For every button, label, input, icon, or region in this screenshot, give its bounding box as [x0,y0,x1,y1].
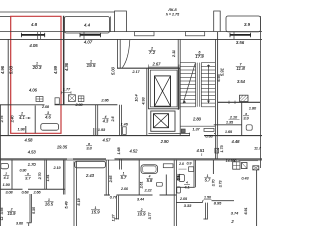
stairwell window box 1 [135,32,155,36]
tub small right [177,187,181,193]
svg-text:4.48: 4.48 [232,139,241,144]
bath bottom wall right [176,186,194,188]
pylon 1 outer wall [115,11,127,32]
hatch box corridor right [215,148,219,153]
svg-text:2.10: 2.10 [229,116,238,120]
svg-text:1.65: 1.65 [225,130,233,134]
parapet stub left of red loggia [0,15,11,17]
hall-bath divider stub [119,159,121,170]
svg-text:1.77: 1.77 [63,87,71,91]
stairwell left wall [177,39,179,110]
stair arrow right flight [208,65,210,104]
svg-text:2.90: 2.90 [160,139,170,144]
svg-text:5.19: 5.19 [77,197,81,205]
fridge box X [253,166,259,170]
stove grid symbol [36,97,43,102]
svg-text:4.8: 4.8 [31,22,38,27]
svg-text:4.4: 4.4 [84,23,91,28]
svg-text:4.58: 4.58 [25,138,34,143]
svg-text:6.91: 6.91 [244,207,248,214]
svg-text:2.86: 2.86 [100,99,109,103]
svg-text:0.9: 0.9 [187,162,192,166]
svg-text:4.3: 4.3 [103,119,109,124]
stair landing lower edge [180,125,215,127]
red apt interior wall [11,104,45,106]
svg-text:2.40: 2.40 [10,116,14,124]
wall under bath block left [0,188,23,190]
bathtub red apt [41,124,59,131]
svg-text:5.8: 5.8 [147,178,153,183]
svg-text:3.70: 3.70 [212,180,216,187]
svg-text:5.7: 5.7 [121,175,127,180]
svg-text:2.65: 2.65 [109,176,113,184]
svg-text:16.5: 16.5 [45,202,54,207]
corridor upper wall [0,135,190,137]
svg-text:4.07: 4.07 [84,39,93,44]
svg-text:3.9: 3.9 [243,117,249,121]
svg-text:3.8: 3.8 [86,147,92,151]
vent shaft hatched box [240,95,249,101]
svg-text:4.36: 4.36 [64,62,69,71]
door arrow red apt [26,117,31,119]
svg-text:0.90: 0.90 [20,168,27,172]
wall rooms 16.5/15.9 [73,161,75,226]
svg-text:10.9: 10.9 [138,212,147,217]
wc box 5.8 [157,182,163,186]
wall x213 [212,160,214,174]
svg-text:5.00: 5.00 [111,66,116,75]
wc toilet bottom right [179,175,185,182]
svg-text:5.49: 5.49 [64,200,68,208]
svg-text:0.68: 0.68 [22,190,29,194]
svg-text:1.70: 1.70 [28,162,37,167]
svg-text:3: 3 [245,112,247,116]
bath divider 5.7/5.8 [138,160,140,195]
svg-text:20.3: 20.3 [32,65,42,70]
svg-text:19.35: 19.35 [57,144,68,149]
stairwell right wall [214,39,216,135]
shelf 5.8 [163,164,173,168]
svg-text:4.57: 4.57 [103,138,112,143]
svg-text:3.7: 3.7 [25,177,31,181]
svg-text:1.98: 1.98 [17,128,24,132]
svg-text:1.46: 1.46 [121,122,129,126]
loggia 2 right edge [109,16,111,31]
svg-text:3.56: 3.56 [0,208,4,215]
svg-text:2.66: 2.66 [32,190,41,194]
wall vertical wc [241,102,243,135]
corridor lower wall [0,158,67,160]
elevator 1 car with X [155,76,171,106]
loggia 2 rounded box [65,17,110,34]
svg-text:8: 8 [88,142,90,146]
door arc room 7.2 [122,40,130,68]
svg-text:2.00: 2.00 [120,187,128,191]
wall below room 7.2 and elevator hall [117,67,180,69]
wall apt2 inner vertical [95,105,97,136]
outer wall band upper line [0,31,262,33]
svg-text:2.08: 2.08 [41,105,49,109]
svg-text:4.99: 4.99 [53,65,58,74]
wall right of room 19.5 [116,39,118,68]
red highlighted apartment outline [11,16,61,133]
loggia 3 rounded box [226,16,260,32]
svg-text:2.0: 2.0 [178,162,184,166]
svg-text:2.22: 2.22 [143,189,151,193]
svg-text:h = 2.75: h = 2.75 [166,12,180,16]
bath 5.7 left wall [105,160,107,196]
elevator shaft 1 outer [148,68,179,109]
svg-text:7.2: 7.2 [149,50,156,55]
wall between red apt and loggia2 [63,16,65,32]
svg-text:3.73: 3.73 [218,181,222,188]
corridor lower wall second line [0,159,262,161]
wall rooms 15.9/10.9 [116,196,118,220]
svg-text:17.9: 17.9 [195,54,204,59]
partition wall 5.8 [165,175,167,196]
svg-text:4.6: 4.6 [45,115,51,120]
svg-text:15.9: 15.9 [91,210,100,215]
door leaf on wall [55,98,59,104]
svg-text:3.33: 3.33 [184,204,192,208]
elevator shaft 2 outer [151,111,175,131]
svg-text:4.1: 4.1 [4,176,9,180]
svg-text:2.6: 2.6 [111,116,115,123]
outer wall band lower line [0,38,262,40]
wall elevator hall left [146,68,148,135]
wall below 8.95 [204,203,206,220]
svg-text:2.11: 2.11 [172,50,176,58]
svg-text:3.56: 3.56 [236,40,245,45]
elevator 2 car with X [154,114,169,128]
window W1 of red apartment [21,34,44,36]
kitchen stove box [233,162,240,169]
svg-text:3: 3 [27,172,29,176]
wc toilet symbol [246,125,252,130]
corridor upper wall second line [148,133,190,135]
svg-text:2.67: 2.67 [152,61,162,66]
wall bottom of big rooms [0,104,11,106]
stair door to corridor [204,128,214,131]
svg-text:1.90: 1.90 [3,183,10,187]
svg-text:2.61: 2.61 [177,174,181,182]
svg-text:4.06: 4.06 [29,87,38,92]
svg-text:2.70: 2.70 [38,173,42,181]
svg-text:1.81: 1.81 [46,175,50,182]
stair stringers [195,63,197,107]
lower left bath wall v1 [11,160,13,190]
outer left wall [7,39,9,135]
svg-text:4.52: 4.52 [130,149,139,154]
svg-text:3.44: 3.44 [137,198,144,202]
svg-text:2.05: 2.05 [179,197,188,201]
tiny box left edge [0,217,2,220]
svg-text:10.9: 10.9 [8,211,17,216]
svg-text:11.7: 11.7 [254,146,262,150]
svg-text:1.35: 1.35 [226,121,234,125]
svg-text:5.7: 5.7 [205,178,211,183]
svg-text:4.05: 4.05 [29,43,38,48]
svg-text:3.77: 3.77 [148,212,152,220]
svg-text:1.27: 1.27 [111,214,115,222]
left edge wall lower [0,105,2,226]
svg-text:5.35: 5.35 [32,207,36,214]
elevator shaft 1 inner wall [150,70,177,107]
outer balcony parapet line top-left [0,11,115,13]
svg-text:5.91: 5.91 [220,68,225,76]
lower left wall v3 [62,160,64,195]
svg-text:2.17: 2.17 [131,70,140,74]
bath block bottom wall [104,194,110,196]
svg-text:4.1: 4.1 [19,115,25,120]
stair diagonal arrow left flight [183,64,195,104]
sink bottom right [189,167,194,172]
kitchen fixtures [68,95,75,102]
wall right section corridor [215,136,217,159]
wall v right block [193,160,195,187]
svg-text:1.80: 1.80 [249,107,257,111]
stair pier dark block [181,129,185,133]
svg-text:1.93: 1.93 [98,128,106,132]
bathtub lower left [1,163,9,168]
svg-text:4.51: 4.51 [197,148,205,153]
building right edge [259,16,261,168]
red apt bath divider [34,106,36,134]
svg-text:14.990: 14.990 [226,159,237,163]
bath lower wall right [176,202,202,204]
window W2 of apartment 2 [80,34,101,36]
svg-text:1.68: 1.68 [117,147,121,154]
door ticks on wall [228,101,230,104]
svg-text:2.43: 2.43 [85,173,95,178]
wall below room 11.8 [218,101,261,103]
bath door stub [25,126,27,133]
svg-text:0.93: 0.93 [205,135,213,139]
svg-text:4.96: 4.96 [0,65,5,74]
wall stub above corridor [93,128,95,136]
kitchen sink box [242,163,248,169]
svg-text:2.80: 2.80 [192,117,202,122]
stair treads [180,62,195,64]
svg-text:19.5: 19.5 [87,63,96,68]
svg-text:0.43: 0.43 [241,177,248,181]
svg-text:10.4: 10.4 [134,94,138,101]
svg-text:4.93: 4.93 [141,96,145,104]
svg-text:3.9: 3.9 [244,22,251,27]
pylon 2 outer wall [214,11,221,31]
svg-text:3.74: 3.74 [231,212,238,216]
svg-text:3.60: 3.60 [16,222,23,226]
svg-text:1.37: 1.37 [192,127,200,131]
elevator dim line [148,66,179,68]
svg-text:3.54: 3.54 [237,79,246,84]
lower left wall v2 [44,160,46,190]
svg-text:ЛК-5: ЛК-5 [167,8,177,12]
svg-text:2: 2 [4,171,7,175]
svg-text:2.00: 2.00 [74,103,82,107]
svg-text:5.03: 5.03 [9,65,14,74]
wardrobe [75,161,106,168]
stairwell window box 2 [185,32,204,36]
wall wc [214,124,242,126]
svg-text:8.95: 8.95 [214,202,222,206]
right wall lower [256,170,258,226]
window W3 right apartment [230,34,251,36]
svg-text:11.8: 11.8 [236,66,245,71]
svg-text:4.53: 4.53 [28,149,37,154]
corridor vertical wall left [118,105,120,136]
svg-text:3.08: 3.08 [5,190,12,194]
corridor door symbol [123,127,127,135]
wall between red apt and apt2 [63,32,65,105]
bathtub 5.8 [141,165,158,174]
svg-text:2.19: 2.19 [52,166,60,170]
svg-text:1.50: 1.50 [204,196,211,200]
svg-text:1.73: 1.73 [220,145,224,152]
room wall 16.5/10.9 [29,194,31,223]
svg-text:2.61: 2.61 [140,182,144,190]
wall right of bath 5.8 [173,160,175,226]
wall under 5.9 [203,200,204,202]
